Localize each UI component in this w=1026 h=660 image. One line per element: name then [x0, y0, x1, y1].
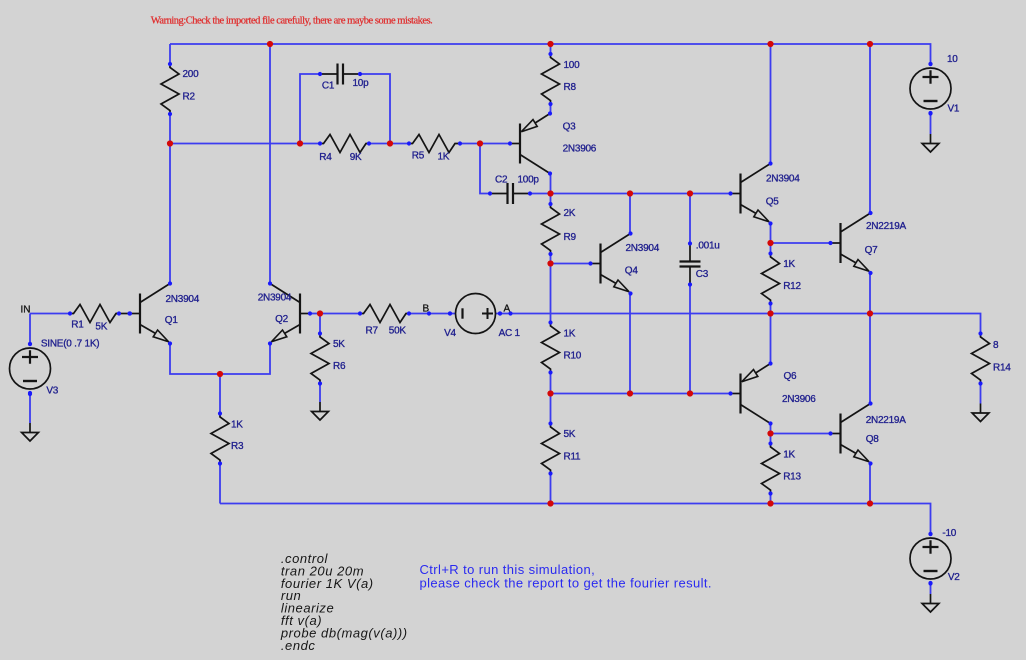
svg-text:R12: R12	[783, 281, 801, 292]
svg-text:V2: V2	[948, 572, 960, 583]
svg-text:please check the report to get: please check the report to get the fouri…	[420, 575, 712, 590]
svg-text:R8: R8	[564, 82, 577, 93]
ground (V3)	[22, 423, 39, 441]
svg-text:Q7: Q7	[865, 245, 879, 256]
pin dot (V4 right)	[498, 311, 502, 315]
wire R8 top	[550, 44, 552, 54]
wire R8 to Q3 emitter	[550, 105, 552, 115]
voltage source V1 (10)	[910, 54, 960, 115]
wire node to R7	[320, 313, 360, 315]
wire node to Q4 base	[551, 263, 591, 265]
wire Q2 collector riser	[269, 44, 271, 283]
wire row to Q5 base	[551, 193, 731, 195]
junction (node A / R12)	[767, 310, 773, 316]
svg-text:2K: 2K	[564, 208, 576, 219]
wire node to Q8 base	[771, 433, 831, 435]
svg-text:Warning:Check the imported fil: Warning:Check the imported file carefull…	[151, 16, 433, 27]
ground (R6)	[312, 402, 329, 420]
svg-text:2N3904: 2N3904	[626, 243, 660, 254]
instruction line 1	[420, 562, 596, 577]
svg-text:B: B	[423, 304, 430, 315]
wire R14 bottom	[980, 385, 982, 404]
svg-text:.endc: .endc	[281, 638, 316, 653]
svg-text:100p: 100p	[518, 174, 540, 185]
wire C2 to node	[530, 193, 551, 195]
svg-text:8: 8	[993, 340, 999, 351]
ground (R14)	[972, 404, 989, 422]
pin dot (V4 left)	[448, 311, 452, 315]
svg-text:R11: R11	[564, 452, 582, 463]
wire R9 node to R10	[550, 264, 552, 323]
svg-text:1K: 1K	[564, 329, 576, 340]
junction (R10 / row)	[547, 390, 553, 396]
resistor R6 (5K)	[311, 331, 346, 385]
svg-text:2N3904: 2N3904	[766, 174, 800, 185]
svg-text:2N3906: 2N3906	[782, 394, 816, 405]
wire R9 bottom	[550, 254, 552, 264]
wire Q4 collector riser	[629, 194, 631, 235]
svg-text:100: 100	[564, 60, 581, 71]
junction (C2 branch)	[477, 140, 483, 146]
junction (Q3 collector / C2)	[547, 190, 553, 196]
ground (V1)	[922, 134, 939, 152]
svg-text:R4: R4	[319, 152, 332, 163]
control directive line: fourier 1K V(a)	[281, 576, 374, 591]
wire Q5 emitter drop	[770, 224, 772, 244]
node label A	[504, 304, 511, 315]
wire V3 top	[29, 314, 31, 345]
transistor Q6 (2N3906 PNP)	[728, 361, 816, 425]
svg-text:2N3904: 2N3904	[166, 294, 200, 305]
svg-text:IN: IN	[21, 305, 31, 316]
svg-text:2N2219A: 2N2219A	[866, 415, 907, 426]
wire V2 bottom	[930, 584, 932, 595]
svg-text:Q1: Q1	[165, 315, 179, 326]
junction (top rail / Q5 collector)	[767, 41, 773, 47]
junction (Q2 base / R6)	[317, 310, 323, 316]
wire top +10V rail	[170, 44, 931, 64]
wire R11 bottom	[550, 474, 552, 504]
node label B	[423, 304, 430, 315]
svg-text:AC 1: AC 1	[499, 328, 521, 339]
wire R13 bottom	[770, 494, 772, 504]
junction (C1 right)	[387, 140, 393, 146]
warning text	[151, 16, 433, 27]
junction (top rail / Q2 collector)	[267, 41, 273, 47]
junction (top rail / R8)	[547, 41, 553, 47]
pin dot (V1 top)	[928, 62, 932, 66]
junction (Q5 emitter / Q7 base)	[767, 240, 773, 246]
wire C1 left branch	[300, 74, 320, 144]
voltage source V4 (AC 1)	[444, 294, 520, 340]
wire R1 to Q1 base (black lead)	[116, 313, 130, 315]
wire node A line	[496, 314, 981, 334]
junction (C1 left)	[297, 140, 303, 146]
junction (Q6 collector / Q8 base)	[767, 430, 773, 436]
resistor R1 (5K)	[68, 305, 121, 333]
junction (R2 node)	[167, 140, 173, 146]
junction (bottom rail / R11)	[547, 500, 553, 506]
pin dot (V1 bottom)	[928, 111, 932, 115]
svg-text:5K: 5K	[95, 322, 107, 333]
resistor R4 (9K)	[318, 135, 371, 164]
svg-text:5K: 5K	[333, 339, 345, 350]
resistor R3 (1K)	[211, 411, 244, 465]
wire Q6 collector drop	[770, 424, 772, 434]
svg-text:C3: C3	[696, 269, 709, 280]
control directive line: linearize	[281, 601, 334, 616]
svg-text:C1: C1	[322, 81, 335, 92]
voltage source V2 (-10)	[910, 528, 960, 585]
svg-text:5K: 5K	[564, 429, 576, 440]
pin dot (node A wire)	[508, 311, 512, 315]
svg-text:Q2: Q2	[275, 314, 289, 325]
transistor Q3 (2N3906 PNP)	[508, 111, 597, 175]
resistor R9 (2K)	[542, 202, 577, 256]
svg-text:1K: 1K	[783, 450, 795, 461]
wire Q4 emitter drop	[629, 294, 631, 394]
node label IN	[21, 305, 31, 316]
resistor R12 (1K)	[762, 251, 802, 305]
pin dot (V3 bottom)	[28, 392, 32, 396]
svg-text:200: 200	[183, 69, 200, 80]
wire R12 top	[770, 243, 772, 254]
svg-text:Q5: Q5	[766, 197, 780, 208]
svg-text:50K: 50K	[389, 326, 407, 337]
ground (V2)	[922, 594, 939, 612]
transistor Q2 (2N3904 NPN)	[258, 281, 312, 345]
wire R3 bottom	[219, 464, 221, 504]
transistor Q1 (2N3904 NPN)	[128, 281, 200, 345]
wire R10 bottom	[550, 373, 552, 394]
wire V1 bottom	[930, 114, 932, 135]
wire R7 to V4	[409, 313, 456, 315]
wire R9 top	[550, 194, 552, 205]
resistor R2 (200)	[161, 62, 199, 116]
svg-text:R2: R2	[183, 92, 196, 103]
junction (C3 top)	[687, 190, 693, 196]
resistor R7 (50K)	[358, 305, 411, 337]
junction (node A / Q7 emitter)	[867, 310, 873, 316]
wire node row to R4	[170, 143, 320, 145]
svg-text:1K: 1K	[783, 259, 795, 270]
control directive line: .endc	[281, 638, 316, 653]
svg-text:Q3: Q3	[563, 122, 577, 133]
wire R5 to Q3 base	[460, 143, 510, 145]
svg-text:Q4: Q4	[625, 266, 639, 277]
svg-text:1K: 1K	[438, 152, 450, 163]
wire R2 bottom to node	[169, 114, 171, 144]
wire Q6 emitter riser	[770, 314, 772, 364]
wire Q2 emitter to node	[220, 344, 270, 375]
wire R12 bottom	[770, 304, 772, 314]
wire C3 bottom	[689, 285, 691, 394]
svg-text:V4: V4	[444, 328, 456, 339]
wire Q8 collector riser	[869, 314, 871, 404]
resistor R5 (1K)	[407, 135, 462, 163]
transistor Q4 (2N3904 NPN)	[588, 231, 659, 295]
svg-text:R10: R10	[564, 351, 582, 362]
control directive line: tran 20u 20m	[281, 563, 364, 578]
resistor R14 (8)	[972, 331, 1012, 385]
wire C3 top	[689, 194, 691, 244]
svg-text:-10: -10	[942, 528, 956, 539]
wire bottom -10V rail	[220, 504, 931, 535]
wire Q1 emitter to node	[170, 344, 220, 375]
pin dot (Q1 base)	[127, 311, 131, 315]
svg-text:R1: R1	[71, 320, 84, 331]
pin dot (node B wire)	[427, 311, 431, 315]
junction (Q4 collector)	[627, 190, 633, 196]
capacitor C3 (.001u)	[680, 241, 720, 287]
junction (top rail / Q7 collector)	[867, 41, 873, 47]
svg-text:C2: C2	[495, 174, 508, 185]
wire Q5 collector riser	[770, 44, 772, 164]
svg-text:R6: R6	[333, 361, 346, 372]
resistor R10 (1K)	[542, 320, 582, 374]
instruction line 2	[420, 575, 712, 590]
resistor R13 (1K)	[762, 441, 802, 495]
junction (bottom rail / R13)	[767, 500, 773, 506]
wire R3 top	[219, 374, 221, 414]
svg-text:10: 10	[947, 54, 958, 65]
junction (Q1-Q2 emitters / R3)	[217, 371, 223, 377]
svg-text:R7: R7	[366, 326, 379, 337]
control directive line: fft v(a)	[281, 613, 322, 628]
junction (C3 bottom / row)	[687, 390, 693, 396]
svg-text:9K: 9K	[350, 152, 362, 163]
svg-text:10p: 10p	[353, 78, 370, 89]
pin dot (V2 top)	[928, 532, 932, 536]
svg-text:R5: R5	[412, 151, 425, 162]
wire R11 top	[550, 394, 552, 425]
svg-text:V1: V1	[948, 104, 960, 115]
svg-text:2N3904: 2N3904	[258, 293, 292, 304]
resistor R8 (100)	[542, 52, 581, 106]
junction (R9 / Q4 base)	[547, 260, 553, 266]
junction (Q4 emitter / row)	[627, 390, 633, 396]
transistor Q5 (2N3904 NPN)	[728, 161, 800, 225]
wire C2 left branch	[480, 144, 490, 194]
svg-text:R9: R9	[564, 232, 577, 243]
capacitor C1 (10p)	[318, 64, 369, 92]
capacitor C2 (100p)	[488, 174, 540, 204]
svg-text:SINE(0 .7 1K): SINE(0 .7 1K)	[41, 339, 99, 350]
wire R13 top	[770, 434, 772, 445]
wire Q3 collector drop	[550, 174, 552, 194]
wire R2 top	[169, 44, 171, 64]
svg-text:R3: R3	[231, 441, 244, 452]
wire C1 right branch	[360, 74, 390, 144]
wire Q1 collector riser	[169, 144, 171, 284]
pin dot (V2 bottom)	[928, 581, 932, 585]
svg-text:V3: V3	[46, 386, 58, 397]
transistor Q7 (2N2219A NPN)	[828, 211, 906, 275]
control directive line: .control	[281, 551, 329, 566]
wire node to Q7 base	[771, 242, 831, 244]
wire IN to R1	[30, 313, 70, 315]
wire R6 top	[319, 314, 321, 334]
wire Q8 emitter drop	[869, 464, 871, 504]
wire R6 bottom	[319, 384, 321, 402]
svg-text:Q8: Q8	[866, 434, 880, 445]
wire row to Q6 base	[551, 393, 731, 395]
transistor Q8 (2N2219A NPN)	[828, 401, 906, 465]
svg-text:2N2219A: 2N2219A	[866, 221, 907, 232]
junction (bottom rail / Q8 emitter)	[867, 500, 873, 506]
wire R4 to R5	[369, 143, 409, 145]
svg-text:R13: R13	[783, 472, 801, 483]
svg-text:Q6: Q6	[784, 371, 798, 382]
voltage source V3 (SINE(0 .7 1K))	[10, 339, 100, 397]
wire Q7 emitter drop	[869, 274, 871, 314]
svg-text:.001u: .001u	[696, 241, 720, 252]
control directive line: run	[281, 588, 301, 603]
wire Q7 collector riser	[869, 44, 871, 213]
svg-text:R14: R14	[993, 363, 1011, 374]
control directive line: probe db(mag(v(a)))	[280, 625, 408, 640]
resistor R11 (5K)	[542, 421, 582, 475]
svg-text:2N3906: 2N3906	[563, 144, 597, 155]
wire V3 bottom	[29, 394, 31, 423]
pin dot (V3 top)	[28, 342, 32, 346]
svg-text:1K: 1K	[231, 420, 243, 431]
svg-text:A: A	[504, 304, 511, 315]
wire Q2 base to node	[310, 313, 320, 315]
